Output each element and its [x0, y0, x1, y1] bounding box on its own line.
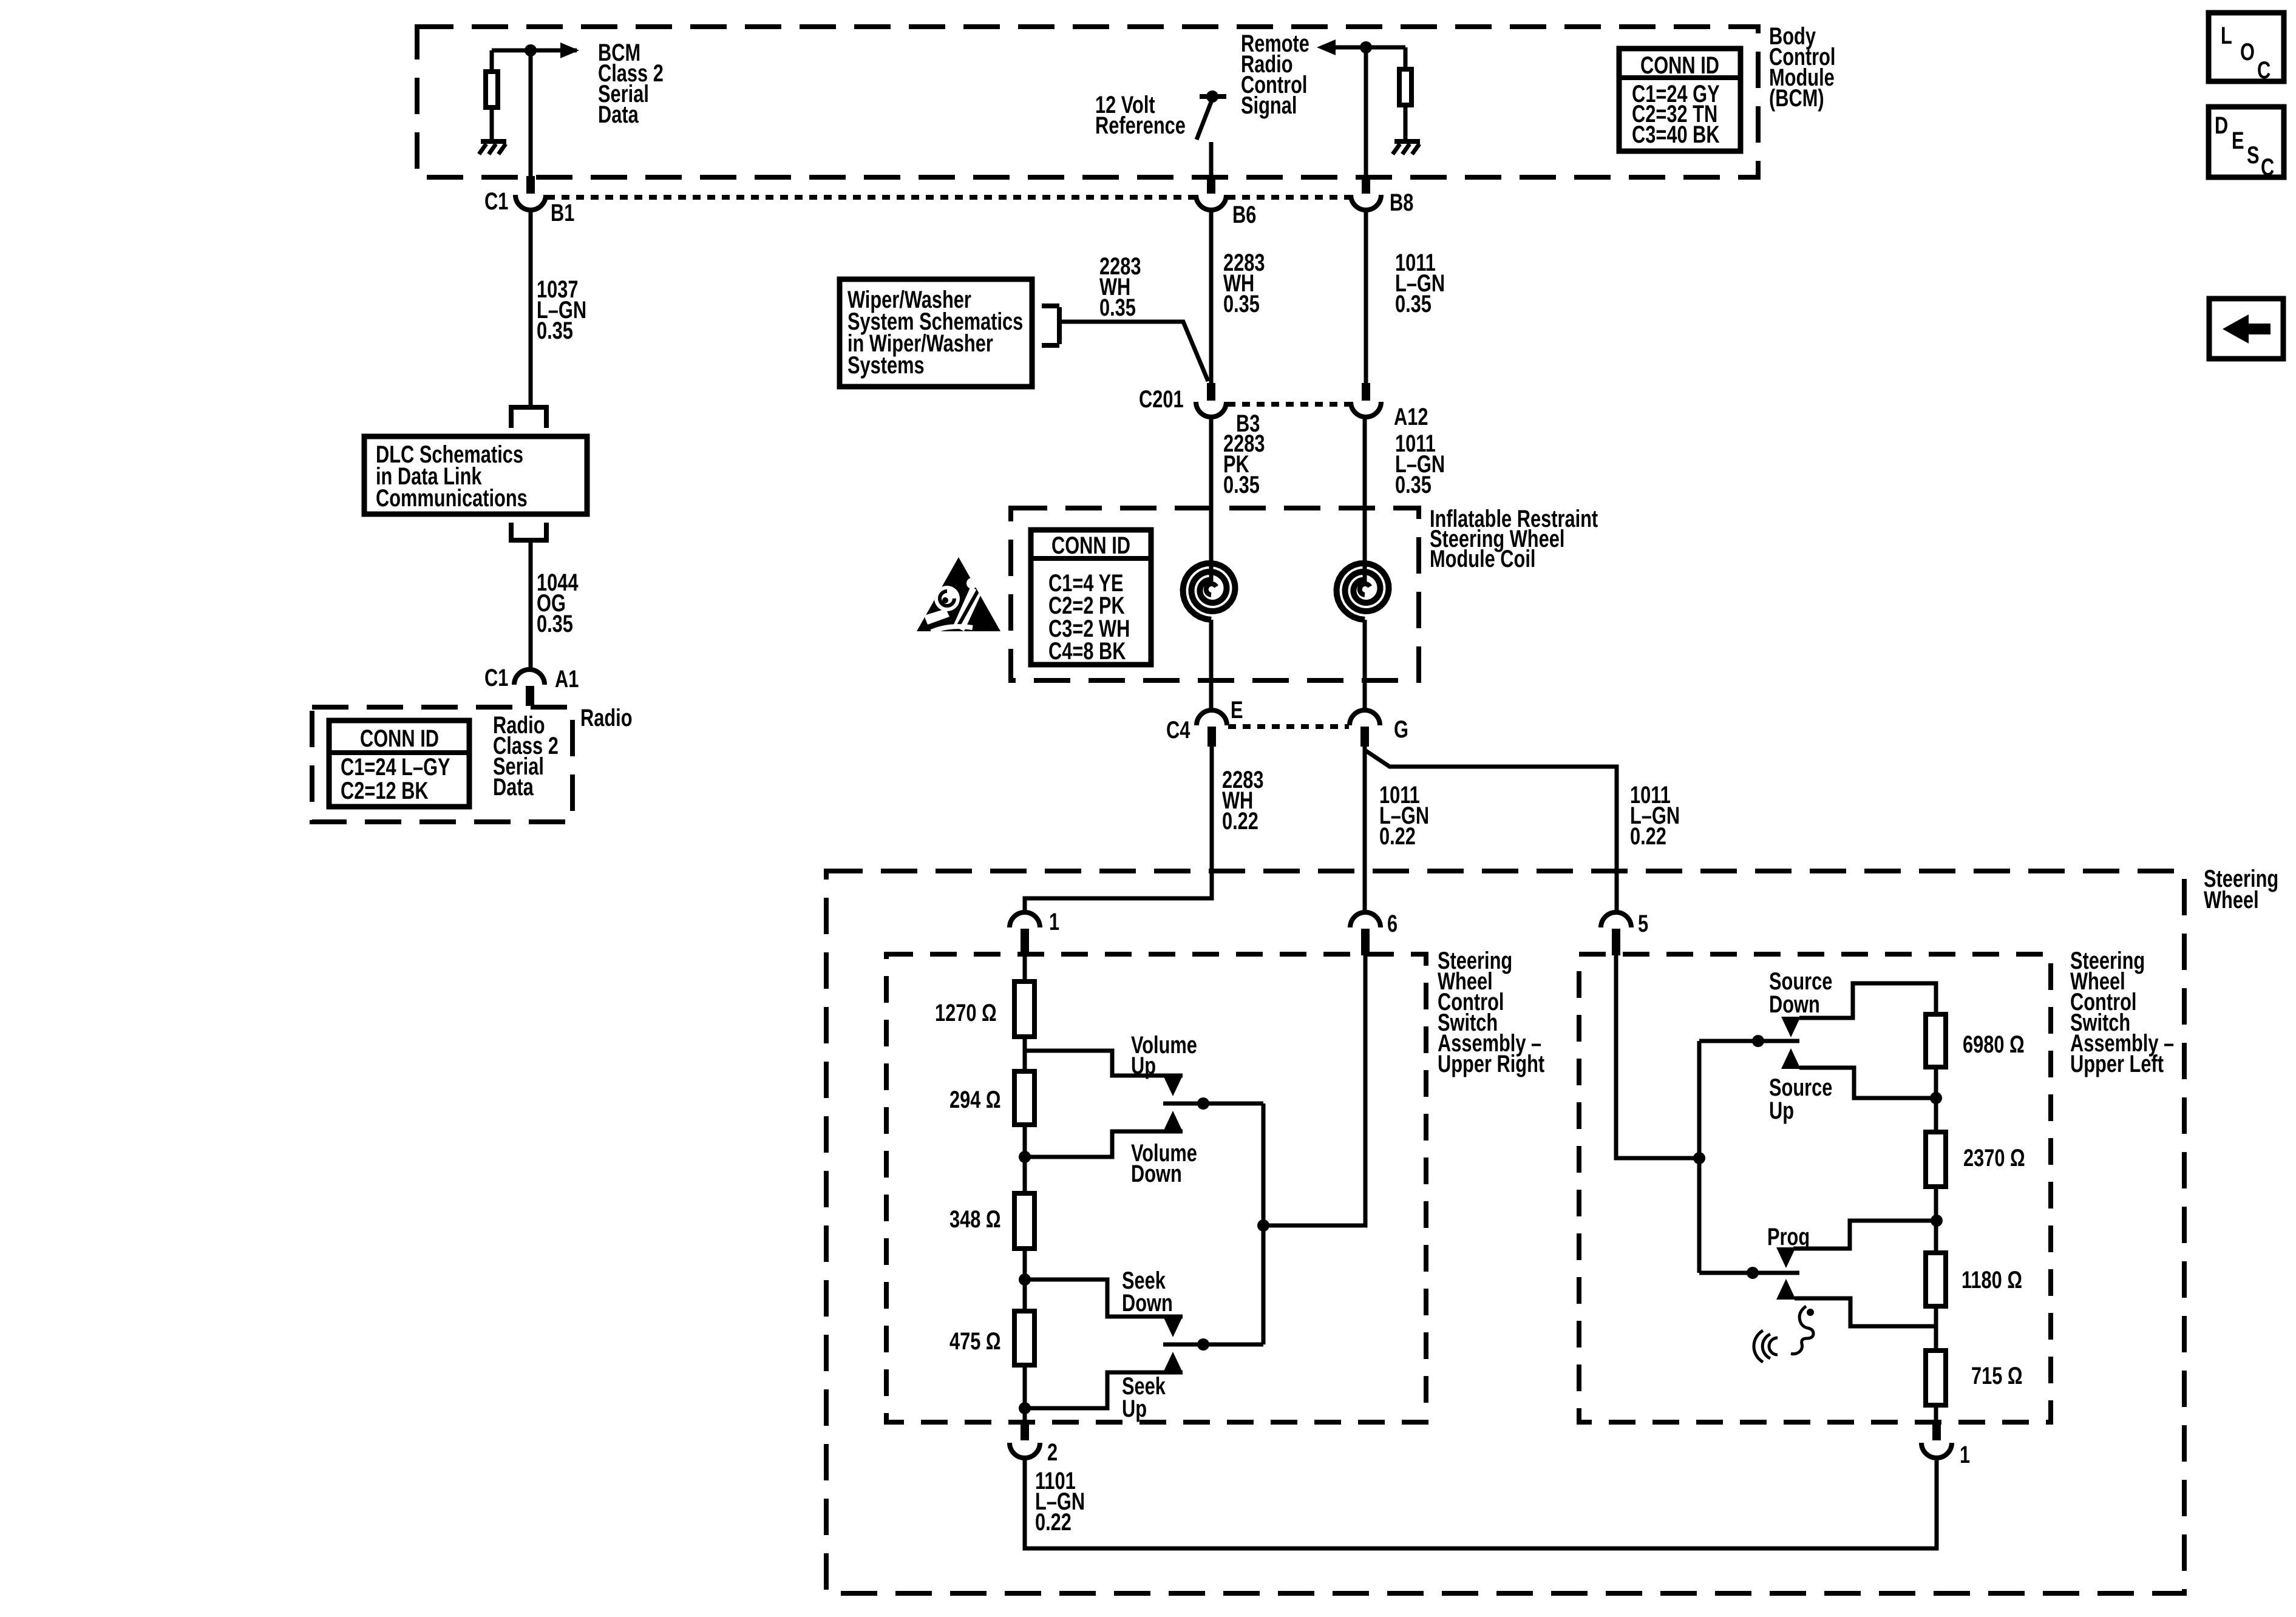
switch common bus (left assembly): [1697, 1041, 1702, 1273]
svg-text:Module Coil: Module Coil: [1430, 545, 1535, 572]
svg-text:0.35: 0.35: [537, 610, 573, 637]
wire: 1180 to 715: [1934, 1306, 1938, 1351]
arrow to Remote Radio Control Signal: [1317, 39, 1336, 55]
coil spiral (left, 2283 circuit): [1183, 563, 1235, 620]
svg-text:0.22: 0.22: [1379, 822, 1416, 850]
junction node (prog tap): [1931, 1215, 1943, 1227]
svg-text:1: 1: [1049, 908, 1059, 935]
svg-text:0.35: 0.35: [1395, 290, 1432, 317]
label 1011 L-GN 0.22 (pin 5 branch): [1630, 781, 1680, 850]
wire 2283 WH 0.22 (E to pin 1): [1025, 747, 1212, 914]
connector pin B8: [1362, 176, 1370, 194]
svg-text:0.35: 0.35: [1099, 294, 1136, 321]
svg-text:0.22: 0.22: [1222, 807, 1258, 835]
switch arrow Volume Down: [1163, 1111, 1183, 1131]
svg-text:D: D: [2215, 112, 2228, 139]
svg-text:Down: Down: [1131, 1160, 1182, 1187]
svg-text:0.22: 0.22: [1630, 822, 1666, 850]
label Body Control Module (BCM): [1769, 22, 1835, 112]
arrow to BCM Class 2 Serial Data: [560, 42, 579, 58]
svg-text:Upper Left: Upper Left: [2070, 1050, 2164, 1077]
label Radio Class 2 Serial Data: [493, 711, 559, 801]
svg-text:S: S: [2247, 141, 2260, 169]
svg-text:C1: C1: [484, 188, 508, 215]
svg-text:0.35: 0.35: [1223, 290, 1260, 317]
switch arrow Source Down: [1781, 1017, 1801, 1037]
svg-text:475 Ω: 475 Ω: [949, 1327, 1001, 1355]
svg-text:Upper Right: Upper Right: [1438, 1050, 1544, 1077]
resistor 294 ohm: [1014, 1071, 1034, 1125]
wire: 2370 to 1180: [1934, 1187, 1938, 1253]
wire: 475 to pin 2: [1023, 1365, 1027, 1422]
svg-text:Data: Data: [598, 101, 639, 128]
wire: BCM class 2 serial data internal: [492, 50, 577, 177]
svg-text:B8: B8: [1390, 189, 1413, 216]
junction node (volume contact): [1197, 1097, 1209, 1110]
svg-text:CONN ID: CONN ID: [1640, 52, 1719, 79]
BCM CONN ID table: [1619, 49, 1741, 151]
coil spiral (right, 1011 circuit): [1337, 563, 1389, 620]
connector line C1 of BCM (dotted): [547, 195, 1350, 200]
connector pin C1/B1: [526, 176, 535, 194]
wire: pin 5 to bus: [1616, 955, 1699, 1158]
wire: Source Down branch: [1799, 983, 1936, 1018]
ground (BCM right): [1394, 139, 1420, 144]
LOC box: [2209, 13, 2284, 84]
switch: 12 volt reference: [1200, 94, 1226, 99]
svg-text:Reference: Reference: [1095, 112, 1186, 139]
label Steering Wheel (outer): [2204, 865, 2278, 914]
svg-text:1180 Ω: 1180 Ω: [1961, 1266, 2022, 1293]
wire: Volume Down branch: [1025, 1131, 1183, 1157]
connector line C4 E-G (dotted): [1228, 724, 1349, 729]
wire: Seek Up branch: [1025, 1372, 1183, 1408]
wire 1037 L-GN (B1 to DLC bracket): [529, 210, 533, 406]
label 2283 WH 0.35: [1223, 249, 1265, 317]
wire 1011 L-GN 0.22 (G to pin 5): [1366, 751, 1617, 914]
wire: switch to pin B6: [1209, 142, 1214, 177]
resistor 715 ohm: [1926, 1351, 1946, 1405]
connector pin C201/B3: [1207, 383, 1215, 401]
resistor 6980 ohm: [1926, 1014, 1946, 1067]
svg-text:1270 Ω: 1270 Ω: [935, 999, 997, 1026]
label Seek Up: [1122, 1372, 1166, 1422]
wire 1101 L-GN 0.22 (pin 2 to pin 1 left assembly): [1025, 1458, 1937, 1548]
DLC Schematics box: [364, 436, 587, 514]
svg-text:C4=8 BK: C4=8 BK: [1048, 637, 1126, 665]
wire: Source Up branch: [1799, 1068, 1936, 1098]
wire: pin 1 to resistor chain: [1023, 955, 1027, 981]
svg-text:Communications: Communications: [376, 484, 528, 512]
label Steering Wheel Control Switch Assembly - Upper Right: [1438, 947, 1544, 1077]
coil CONN ID table: [1031, 530, 1151, 665]
svg-text:C: C: [2261, 154, 2274, 181]
svg-text:C1: C1: [484, 664, 508, 691]
connector line C201 (dotted): [1228, 402, 1350, 407]
connector pin B6: [1207, 176, 1215, 194]
wire 1011 L-GN (B8 to A12): [1364, 210, 1368, 388]
switch contact (prog): [1699, 1271, 1799, 1275]
svg-text:Down: Down: [1769, 991, 1820, 1018]
wire through right spiral: [1363, 620, 1367, 713]
connector pin 5: [1601, 912, 1631, 927]
label 1044 OG 0.35: [537, 569, 579, 637]
wire: remote radio control internal: [1336, 47, 1405, 177]
svg-text:O: O: [2240, 38, 2255, 66]
svg-text:CONN ID: CONN ID: [360, 725, 439, 752]
junction node (source up tap): [1930, 1092, 1942, 1104]
junction node (bus to pin 6): [1257, 1219, 1269, 1232]
junction node (source contact): [1752, 1035, 1764, 1047]
connector pin G: [1350, 710, 1380, 725]
label Steering Wheel Control Switch Assembly - Upper Left: [2070, 947, 2174, 1077]
switch contact (seek): [1163, 1343, 1263, 1347]
label Volume Up: [1131, 1031, 1197, 1079]
svg-text:CONN ID: CONN ID: [1051, 532, 1130, 559]
switch contact (volume): [1163, 1102, 1263, 1106]
label 2283 PK 0.35: [1223, 430, 1265, 498]
Inflatable Restraint Steering Wheel Module Coil dashed box: [1011, 508, 1419, 680]
svg-text:Radio: Radio: [580, 704, 633, 731]
connector pin C4/E: [1197, 710, 1227, 725]
wire 2283 WH (wiper branch): [1062, 322, 1208, 381]
resistor 2370 ohm: [1926, 1132, 1946, 1187]
resistor (BCM right pull-up): [1399, 69, 1411, 105]
svg-text:Wheel: Wheel: [2204, 886, 2259, 914]
svg-text:0.22: 0.22: [1035, 1508, 1072, 1536]
svg-text:1: 1: [1960, 1441, 1970, 1468]
wire through left spiral: [1209, 620, 1214, 713]
svg-text:E: E: [1231, 696, 1243, 724]
resistor (BCM left pull-up): [486, 72, 498, 107]
Wiper/Washer reference box: [840, 279, 1032, 387]
svg-text:0.35: 0.35: [537, 317, 573, 344]
connector pin 1 (upper right assembly): [1010, 912, 1040, 927]
wire 2283 PK (B3 to coil): [1209, 417, 1214, 585]
ground (BCM left): [481, 139, 506, 144]
svg-text:715 Ω: 715 Ω: [1971, 1362, 2023, 1389]
wire 2283 WH (B6 to C201/B3): [1209, 210, 1214, 388]
off-page bracket (wiper box): [1042, 306, 1059, 345]
Radio CONN ID table: [329, 720, 469, 807]
junction node (seek contact): [1197, 1338, 1209, 1351]
resistor 1270 ohm: [1014, 981, 1034, 1037]
svg-text:C2=12 BK: C2=12 BK: [341, 777, 429, 804]
connector pin 2: [1021, 1422, 1029, 1440]
svg-text:Systems: Systems: [847, 351, 925, 379]
voice recognition icon: [1754, 1306, 1814, 1362]
wire: Volume Up branch: [1025, 1051, 1183, 1076]
wire 1011 L-GN 0.22 (G to pin 6): [1363, 747, 1367, 914]
switch arrow Volume Up: [1163, 1076, 1183, 1096]
resistor 348 ohm: [1014, 1193, 1034, 1249]
label BCM Class 2 Serial Data: [598, 39, 664, 128]
wire: 715 to pin 1: [1934, 1405, 1938, 1422]
wire: 294 to 348: [1023, 1125, 1027, 1193]
svg-text:0.35: 0.35: [1223, 471, 1260, 498]
svg-text:Up: Up: [1131, 1052, 1156, 1079]
svg-text:C3=40 BK: C3=40 BK: [1632, 121, 1720, 148]
label 1101 L-GN 0.22: [1035, 1467, 1085, 1536]
svg-text:C4: C4: [1166, 716, 1190, 744]
svg-text:348 Ω: 348 Ω: [949, 1205, 1001, 1233]
label 1011 L-GN 0.35: [1395, 249, 1445, 317]
wire: voice branch: [1795, 1298, 1936, 1326]
wire 1011 L-GN (A12 to coil): [1363, 417, 1367, 585]
DESC box: [2209, 107, 2284, 181]
svg-text:6980 Ω: 6980 Ω: [1963, 1031, 2025, 1058]
junction node (pin 5 to bus): [1693, 1152, 1705, 1164]
svg-text:Up: Up: [1122, 1395, 1147, 1422]
switch contact (source): [1699, 1039, 1799, 1043]
resistor 1180 ohm: [1926, 1253, 1946, 1306]
label Wiper/Washer System Schematics in Wiper/Washer Systems: [847, 286, 1023, 379]
Steering Wheel Control Switch Assembly Upper Left dashed box: [1579, 954, 2051, 1422]
svg-text:0.35: 0.35: [1395, 471, 1432, 498]
off-page bracket (above DLC box): [509, 407, 549, 428]
label 1037 L-GN 0.35: [537, 276, 586, 344]
off-page bracket (below DLC box): [509, 523, 549, 540]
svg-text:Data: Data: [493, 773, 534, 801]
svg-text:2: 2: [1047, 1439, 1058, 1466]
switch arrow voice recognition: [1776, 1279, 1796, 1300]
label Volume Down: [1131, 1139, 1197, 1187]
junction node (volume down tap): [1019, 1151, 1031, 1163]
Radio dashed box: [312, 707, 572, 822]
svg-text:5: 5: [1638, 910, 1648, 937]
wire: 6980 to 2370: [1934, 1067, 1938, 1132]
label 12 Volt Reference: [1095, 91, 1186, 139]
svg-text:B1: B1: [551, 199, 574, 226]
svg-text:294 Ω: 294 Ω: [949, 1086, 1001, 1113]
svg-text:E: E: [2232, 127, 2244, 154]
switch arrow Source Up: [1781, 1048, 1801, 1069]
svg-text:Down: Down: [1122, 1289, 1173, 1317]
label Inflatable Restraint Steering Wheel Module Coil: [1430, 505, 1598, 572]
junction node (prog contact): [1747, 1267, 1759, 1279]
label 1011 L-GN 0.35 (2nd): [1395, 430, 1445, 498]
switch arrow Prog: [1776, 1247, 1796, 1268]
svg-text:A12: A12: [1394, 403, 1428, 430]
svg-text:Signal: Signal: [1241, 92, 1297, 119]
connector pin A12: [1362, 383, 1370, 401]
svg-text:L: L: [2221, 22, 2232, 49]
switch arrow Seek Up: [1163, 1352, 1183, 1372]
label DLC Schematics in Data Link Communications: [376, 441, 528, 512]
Steering Wheel Control Switch Assembly Upper Right dashed box: [886, 954, 1426, 1422]
label Source Down: [1769, 968, 1832, 1018]
BCM (Body Control Module) dashed box: [417, 27, 1758, 177]
svg-text:C: C: [2257, 56, 2271, 84]
svg-text:Prog: Prog: [1767, 1223, 1810, 1250]
label Remote Radio Control Signal: [1241, 30, 1309, 119]
svg-text:B6: B6: [1232, 201, 1256, 228]
connector pin C1/A1 (radio): [514, 670, 545, 685]
wire: switch output bus to pin 6: [1263, 955, 1365, 1344]
Steering Wheel outer dashed box: [826, 871, 2184, 1593]
label 2283 WH 0.22: [1222, 766, 1264, 835]
svg-text:G: G: [1394, 716, 1408, 743]
junction node (seek up tap): [1019, 1402, 1031, 1414]
resistor 475 ohm: [1014, 1311, 1034, 1365]
svg-text:Up: Up: [1769, 1097, 1794, 1124]
label 2283 WH 0.35 (wiper): [1099, 253, 1141, 321]
connector pin 6: [1350, 912, 1381, 927]
wire: 348 to 475: [1023, 1249, 1027, 1311]
wire: Prog branch: [1793, 1221, 1937, 1249]
connector pin 1 (left assembly bottom): [1932, 1422, 1941, 1440]
junction node (remote signal): [1360, 41, 1372, 53]
label Seek Down: [1122, 1267, 1173, 1317]
junction node (BCM serial data): [525, 44, 537, 56]
label Source Up: [1769, 1074, 1832, 1124]
junction node (seek down tap): [1019, 1273, 1031, 1286]
airbag warning triangle: [917, 557, 1000, 632]
svg-text:A1: A1: [555, 665, 579, 693]
wire: Seek Down branch: [1025, 1280, 1183, 1317]
svg-text:6: 6: [1387, 910, 1398, 937]
switch arrow Seek Down: [1163, 1317, 1183, 1337]
wire 1044 OG: [529, 543, 533, 670]
wire: 1270 to 294: [1023, 1037, 1027, 1071]
svg-text:2370 Ω: 2370 Ω: [1963, 1144, 2025, 1171]
label 1011 L-GN 0.22 (pin 6 branch): [1379, 781, 1429, 850]
svg-text:(BCM): (BCM): [1769, 84, 1824, 112]
svg-text:C201: C201: [1139, 385, 1184, 413]
back arrow box: [2209, 299, 2283, 359]
